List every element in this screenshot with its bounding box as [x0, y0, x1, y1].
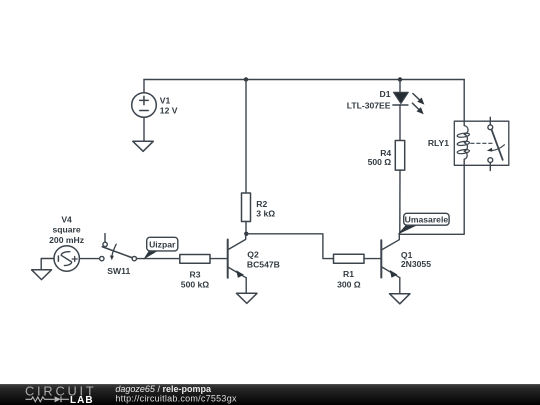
wire: V4 left terminal to ground	[41, 259, 54, 270]
wire: top rail down to V1 plus terminal	[143, 80, 145, 93]
wire: V1 minus terminal to ground	[143, 117, 145, 141]
svg-text:3 kΩ: 3 kΩ	[256, 209, 275, 219]
svg-text:Umasarele: Umasarele	[405, 215, 449, 225]
svg-text:D1: D1	[380, 89, 391, 99]
svg-text:Q2: Q2	[247, 249, 259, 259]
svg-text:BC547B: BC547B	[247, 260, 280, 270]
net flag Uizpar	[143, 237, 178, 259]
wire: Q1 emitter down to ground	[399, 278, 401, 294]
wire: top rail down to LED D1 anode	[399, 80, 401, 93]
svg-text:500 Ω: 500 Ω	[368, 157, 392, 167]
ground (below V1)	[133, 141, 154, 151]
svg-text:LTL-307EE: LTL-307EE	[347, 100, 391, 110]
wire: Q2 collector node right, down, to R1 left terminal	[246, 234, 333, 259]
svg-text:200 mHz: 200 mHz	[49, 235, 84, 245]
ground (below Q1)	[390, 294, 411, 304]
wire: relay coil bottom down and left to Q1 collector node	[400, 159, 464, 234]
wire: SW11 right terminal to R3	[137, 258, 180, 260]
junction: Q2 collector node	[244, 232, 248, 236]
svg-text:LAB: LAB	[70, 395, 94, 405]
svg-text:SW11: SW11	[107, 266, 130, 276]
svg-text:square: square	[53, 224, 81, 234]
wire: Q2 emitter down to ground	[245, 278, 247, 294]
net flag Umasarele	[397, 213, 449, 234]
resistor R2	[242, 193, 251, 222]
ground (below Q2)	[237, 293, 258, 303]
transistor Q2	[228, 234, 247, 278]
resistor R4	[395, 141, 404, 171]
svg-text:Uizpar: Uizpar	[149, 240, 176, 250]
svg-text:dagoze65 / rele-pompa: dagoze65 / rele-pompa	[115, 384, 212, 394]
resistor R3	[180, 255, 210, 264]
voltage source V4 (square wave)	[54, 246, 79, 271]
wire: R1 right terminal to Q1 base	[364, 258, 380, 260]
svg-text:R1: R1	[343, 269, 354, 279]
svg-text:http://circuitlab.com/c7553gx: http://circuitlab.com/c7553gx	[115, 394, 237, 404]
wire: R4 bottom to Q1 collector node	[399, 170, 401, 234]
LED D1	[393, 92, 425, 114]
wire: relay coil branch from top rail down to relay	[463, 80, 465, 126]
wire: top power rail from V1 to relay branch	[144, 79, 464, 81]
svg-text:V4: V4	[61, 215, 72, 225]
resistor R1	[334, 254, 365, 263]
svg-text:300 Ω: 300 Ω	[337, 280, 361, 290]
footer bar	[0, 384, 540, 405]
transistor Q1	[381, 234, 400, 277]
svg-text:500 kΩ: 500 kΩ	[181, 280, 210, 290]
junction: top rail / D1 branch	[398, 77, 402, 81]
wire: D1 cathode to R4	[399, 105, 401, 141]
switch SW11	[100, 234, 137, 261]
logo CIRCUIT LAB	[25, 384, 97, 405]
wire: R3 right terminal to Q2 base	[210, 258, 227, 260]
wire: V4 right terminal to SW11	[79, 258, 99, 260]
svg-text:12 V: 12 V	[160, 105, 178, 115]
svg-text:2N3055: 2N3055	[401, 259, 431, 269]
wire: R2 bottom to Q2 collector node	[245, 222, 247, 234]
junction: top rail / R2 branch	[244, 77, 248, 81]
svg-text:RLY1: RLY1	[428, 138, 449, 148]
ground (left of V4)	[32, 270, 52, 280]
wire: top rail down to resistor R2	[245, 80, 247, 194]
relay RLY1	[454, 117, 509, 170]
voltage source V1	[132, 93, 157, 118]
svg-text:R3: R3	[190, 269, 201, 279]
svg-text:V1: V1	[160, 95, 171, 105]
